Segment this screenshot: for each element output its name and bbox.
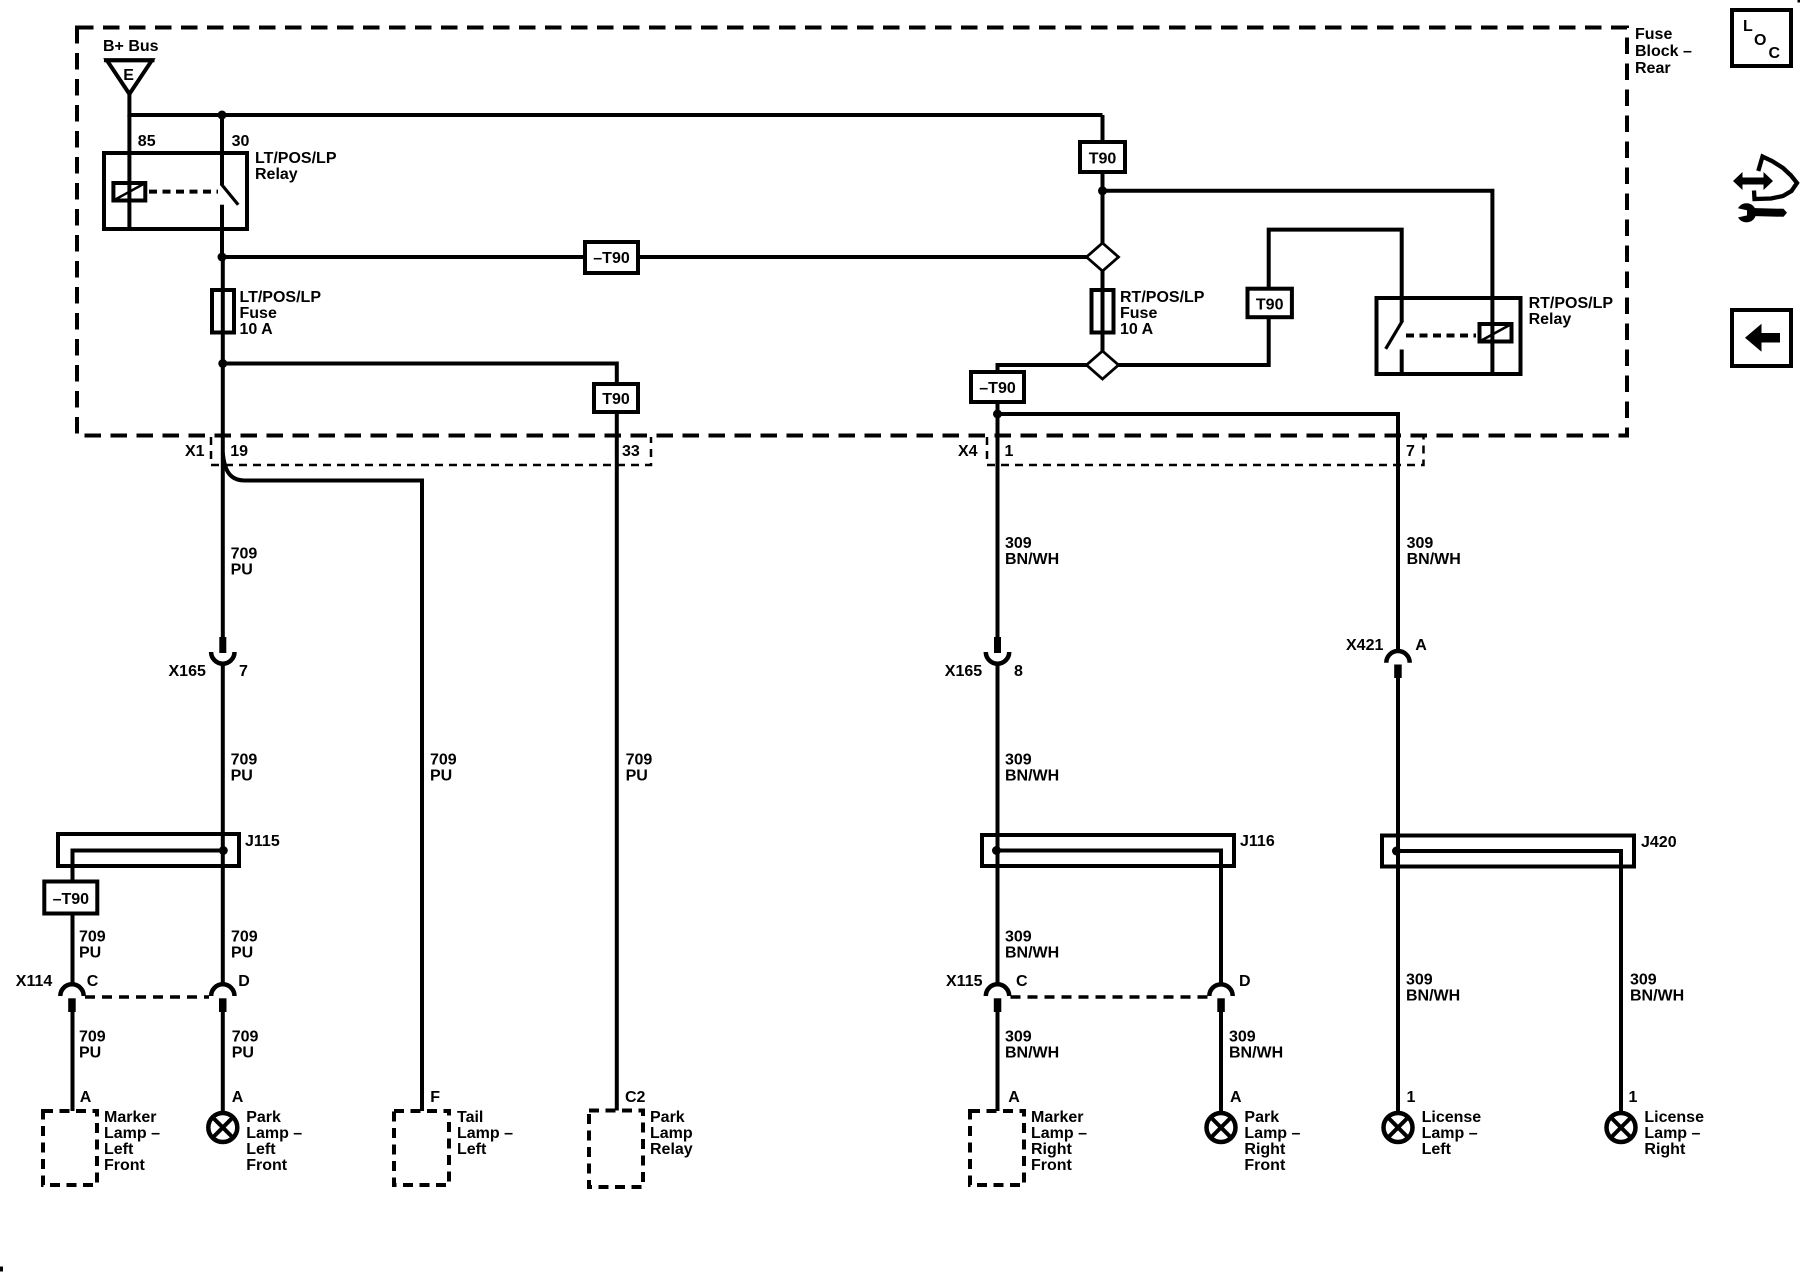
relay K-LT switch blade	[222, 185, 237, 257]
connector diamond 1	[1087, 243, 1119, 271]
svg-text:PU: PU	[231, 945, 253, 962]
svg-text:309: 309	[1630, 972, 1657, 989]
svg-text:85: 85	[138, 133, 156, 150]
svg-text:C2: C2	[625, 1089, 646, 1106]
svg-text:30: 30	[232, 133, 250, 150]
svg-text:F: F	[430, 1089, 440, 1106]
svg-text:RT/POS/LP: RT/POS/LP	[1120, 289, 1205, 306]
svg-text:–T90: –T90	[53, 891, 90, 908]
relay K-LT box	[104, 153, 247, 229]
svg-text:BN/WH: BN/WH	[1005, 1045, 1059, 1062]
svg-text:Right: Right	[1644, 1141, 1686, 1158]
svg-text:BN/WH: BN/WH	[1407, 551, 1461, 568]
wire label 309 BN/WH (to park right)	[1229, 1029, 1283, 1062]
svg-text:Lamp: Lamp	[650, 1125, 693, 1142]
svg-text:Lamp –: Lamp –	[1644, 1125, 1700, 1142]
svg-text:Right: Right	[1244, 1141, 1286, 1158]
svg-text:A: A	[232, 1089, 244, 1106]
svg-text:709: 709	[430, 752, 457, 769]
svg-text:Fuse: Fuse	[1120, 305, 1157, 322]
svg-text:709: 709	[232, 1029, 259, 1046]
inline connector X165 pin 7	[211, 637, 234, 664]
tag T90 (3)	[1080, 142, 1125, 172]
svg-text:1: 1	[1629, 1089, 1638, 1106]
svg-text:Rear: Rear	[1635, 60, 1671, 77]
inline connector X114 pin C	[60, 984, 83, 1012]
wire X115 C to marker lamp right	[996, 1012, 1000, 1111]
fuse block - rear dashed border	[77, 28, 1627, 436]
inline connector X421 pin A	[1386, 651, 1409, 678]
svg-text:PU: PU	[79, 945, 101, 962]
svg-text:Lamp –: Lamp –	[246, 1125, 302, 1142]
B+ bus power symbol triangle E	[104, 60, 155, 94]
wire label 709 PU (to marker lamp)	[79, 1029, 106, 1062]
svg-text:BN/WH: BN/WH	[1229, 1045, 1283, 1062]
wire T90 tag3 to diamond 1	[1101, 171, 1105, 243]
svg-text:Marker: Marker	[104, 1109, 156, 1126]
wire label 709 PU (below J115 main)	[231, 929, 258, 962]
svg-text:A: A	[80, 1089, 92, 1106]
X115 C-D dashed harness link	[1011, 995, 1208, 999]
wire label 709 PU (mid tail lamp)	[430, 752, 457, 785]
relay K-LT coil	[113, 183, 145, 201]
svg-text:D: D	[238, 973, 250, 990]
svg-text:309: 309	[1407, 535, 1434, 552]
svg-text:7: 7	[239, 663, 248, 680]
svg-text:–T90: –T90	[593, 250, 630, 267]
svg-text:Left: Left	[457, 1141, 487, 1158]
svg-text:A: A	[1230, 1089, 1242, 1106]
Tail Lamp Left label	[457, 1109, 513, 1158]
svg-text:Lamp –: Lamp –	[1422, 1125, 1478, 1142]
svg-text:BN/WH: BN/WH	[1406, 988, 1460, 1005]
svg-text:Front: Front	[104, 1157, 146, 1174]
LT/POS/LP Fuse 10 A label	[240, 289, 322, 338]
wire label 309 BN/WH (to marker right)	[1005, 1029, 1059, 1062]
svg-text:BN/WH: BN/WH	[1630, 988, 1684, 1005]
svg-text:T90: T90	[602, 391, 630, 408]
splice J420	[1382, 836, 1634, 1115]
svg-text:7: 7	[1406, 443, 1415, 460]
svg-text:Lamp –: Lamp –	[104, 1125, 160, 1142]
tag -T90 (6)	[44, 882, 97, 914]
svg-text:O: O	[1754, 32, 1766, 49]
inline connector X114 pin D	[211, 984, 234, 1012]
svg-text:10 A: 10 A	[240, 321, 274, 338]
wire T90 tag5 up over to RT relay switch	[1269, 230, 1402, 298]
wire label 709 PU (left of J115 below)	[79, 929, 106, 962]
License Lamp Left label	[1422, 1109, 1482, 1158]
svg-text:BN/WH: BN/WH	[1005, 768, 1059, 785]
svg-text:PU: PU	[232, 1045, 254, 1062]
marker lamp - left front dashed box	[43, 1111, 97, 1185]
license lamp - left lamp symbol	[1384, 1113, 1413, 1142]
bus wire horizontal	[129, 113, 1102, 117]
wire label 709 PU (mid park lamp relay)	[626, 752, 653, 785]
svg-text:X165: X165	[169, 663, 206, 680]
wire -T90 tag6 to X114 C	[71, 914, 75, 986]
Park Lamp Right Front label	[1244, 1109, 1300, 1174]
svg-text:BN/WH: BN/WH	[1005, 551, 1059, 568]
wire -T90 tag4 down to X4 pin 1	[996, 402, 1000, 637]
license lamp - right lamp symbol	[1607, 1113, 1636, 1142]
wire branch to tail lamp	[223, 453, 422, 1111]
svg-text:RT/POS/LP: RT/POS/LP	[1529, 295, 1614, 312]
svg-text:309: 309	[1005, 1029, 1032, 1046]
interconnect hand icon double arrow	[1733, 172, 1773, 190]
svg-text:L: L	[1743, 18, 1753, 35]
svg-text:–T90: –T90	[979, 380, 1016, 397]
svg-text:A: A	[1008, 1089, 1020, 1106]
tag T90 (2)	[594, 384, 638, 412]
relay K-LT dashed actuator link	[149, 190, 218, 194]
svg-text:1: 1	[1005, 443, 1014, 460]
node junction below LT relay	[218, 253, 227, 262]
wire X114 D to park lamp	[221, 1012, 225, 1115]
svg-text:Front: Front	[246, 1157, 288, 1174]
wire relay to -T90 tag	[222, 255, 586, 259]
relay K-RT coil	[1480, 298, 1512, 374]
wire label 309 BN/WH (mid right)	[1005, 752, 1059, 785]
svg-text:Relay: Relay	[650, 1141, 693, 1158]
svg-text:Front: Front	[1244, 1157, 1286, 1174]
svg-text:Right: Right	[1031, 1141, 1073, 1158]
wire label 709 PU (mid left)	[231, 752, 258, 785]
wire X421 to J420 and license lamp left	[1396, 678, 1400, 1115]
splice J116	[982, 835, 1234, 985]
wire label 309 BN/WH (X4 pin1 upper)	[1005, 535, 1059, 568]
svg-text:X165: X165	[945, 663, 982, 680]
svg-text:J420: J420	[1641, 834, 1677, 851]
svg-text:Relay: Relay	[255, 166, 298, 183]
connector X4 dotted outline	[987, 437, 1424, 465]
node junction below -T90 tag4	[993, 410, 1002, 419]
wire X165-7 to J115 and X114 D	[221, 664, 225, 985]
svg-text:Block –: Block –	[1635, 43, 1692, 60]
svg-text:A: A	[1415, 637, 1427, 654]
svg-text:X1: X1	[185, 443, 205, 460]
X114 C-D dashed harness link	[85, 995, 209, 999]
wire -T90 tag to diamond	[636, 255, 1087, 259]
svg-text:PU: PU	[79, 1045, 101, 1062]
svg-text:Lamp –: Lamp –	[1031, 1125, 1087, 1142]
svg-text:19: 19	[230, 443, 248, 460]
svg-text:309: 309	[1005, 929, 1032, 946]
svg-text:1: 1	[1407, 1089, 1416, 1106]
wire junction to T90 tag 2	[223, 364, 617, 385]
svg-text:Park: Park	[650, 1109, 685, 1126]
svg-text:X114: X114	[16, 973, 53, 990]
wire pin 85	[127, 115, 131, 229]
svg-text:PU: PU	[231, 562, 253, 579]
svg-text:309: 309	[1406, 972, 1433, 989]
wire label 309 BN/WH (license left)	[1406, 972, 1460, 1005]
Fuse Block - Rear label	[1635, 26, 1692, 77]
inline connector X115 pin D	[1209, 984, 1232, 1012]
svg-text:PU: PU	[430, 768, 452, 785]
svg-text:T90: T90	[1089, 151, 1117, 168]
LT/POS/LP Relay label	[255, 150, 337, 183]
park lamp - right front lamp symbol	[1207, 1113, 1236, 1142]
svg-text:Marker: Marker	[1031, 1109, 1083, 1126]
wire X114 C to marker lamp	[71, 1012, 75, 1111]
svg-text:Left: Left	[104, 1141, 134, 1158]
svg-text:8: 8	[1014, 663, 1023, 680]
relay K-RT switch blade	[1387, 298, 1402, 374]
node junction below T90 tag3	[1098, 186, 1107, 195]
svg-text:B+ Bus: B+ Bus	[103, 38, 159, 55]
svg-text:X115: X115	[946, 973, 983, 990]
marker lamp - right front dashed box	[970, 1111, 1024, 1185]
connector diamond 2	[1087, 351, 1119, 379]
svg-text:Left: Left	[246, 1141, 276, 1158]
svg-text:C: C	[87, 973, 99, 990]
page corner mark bottom-left	[0, 1267, 3, 1272]
fuse F-LT	[212, 290, 234, 333]
svg-text:709: 709	[79, 1029, 106, 1046]
svg-text:X4: X4	[958, 443, 978, 460]
License Lamp Right label	[1644, 1109, 1704, 1158]
Park Lamp Left Front label	[246, 1109, 302, 1174]
svg-text:Lamp –: Lamp –	[457, 1125, 513, 1142]
wire junction to X4 pin 7	[998, 414, 1399, 650]
svg-text:Left: Left	[1422, 1141, 1452, 1158]
wire diamond2 to -T90 tag 4	[998, 365, 1087, 372]
wire label 309 BN/WH (license right)	[1630, 972, 1684, 1005]
svg-text:33: 33	[622, 443, 640, 460]
svg-text:Relay: Relay	[1529, 311, 1572, 328]
wire diamond2 to T90 tag 5	[1119, 317, 1269, 365]
svg-text:C: C	[1016, 973, 1028, 990]
svg-text:Fuse: Fuse	[240, 305, 277, 322]
splice J115	[58, 834, 239, 881]
svg-text:Park: Park	[1244, 1109, 1279, 1126]
svg-text:309: 309	[1229, 1029, 1256, 1046]
wire junction to RT relay coil	[1103, 191, 1493, 298]
svg-text:BN/WH: BN/WH	[1005, 945, 1059, 962]
relay K-RT dashed actuator link	[1406, 334, 1476, 338]
svg-text:PU: PU	[626, 768, 648, 785]
svg-text:Lamp –: Lamp –	[1244, 1125, 1300, 1142]
wire through RT fuse	[1101, 271, 1105, 351]
wire pin 30	[220, 115, 224, 185]
wire X165-8 to J116 and X115 C	[996, 664, 1000, 985]
svg-text:D: D	[1239, 973, 1251, 990]
svg-text:C: C	[1769, 45, 1781, 62]
wire 709 PU from X1 pin 19 down	[221, 364, 225, 638]
wire label 709 PU (upper left)	[231, 546, 258, 579]
tag -T90 (4)	[971, 372, 1024, 402]
svg-text:709: 709	[626, 752, 653, 769]
svg-text:309: 309	[1005, 752, 1032, 769]
svg-text:Front: Front	[1031, 1157, 1073, 1174]
svg-text:709: 709	[79, 929, 106, 946]
node junction below LT fuse	[218, 359, 227, 368]
Marker Lamp Left Front label	[104, 1109, 160, 1174]
inline connector X165 pin 8	[986, 637, 1009, 664]
svg-text:LT/POS/LP: LT/POS/LP	[240, 289, 322, 306]
svg-text:Park: Park	[246, 1109, 281, 1126]
svg-text:License: License	[1644, 1109, 1704, 1126]
wire label 309 BN/WH (below J116)	[1005, 929, 1059, 962]
svg-text:709: 709	[231, 546, 258, 563]
wire X115 D to park lamp right	[1219, 1012, 1223, 1115]
Marker Lamp Right Front label	[1031, 1109, 1087, 1174]
interconnect hand icon outline	[1754, 157, 1797, 200]
fuse F-RT	[1092, 290, 1114, 333]
svg-text:Fuse: Fuse	[1635, 26, 1672, 43]
svg-text:J116: J116	[1240, 833, 1275, 850]
page corner mark top-right	[1798, 0, 1800, 3]
RT/POS/LP Relay label	[1529, 295, 1614, 328]
svg-text:LT/POS/LP: LT/POS/LP	[255, 150, 337, 167]
relay K-RT box	[1377, 298, 1521, 374]
wire label 709 PU (to park lamp)	[232, 1029, 259, 1062]
interconnect hand icon wrench	[1735, 203, 1788, 222]
svg-text:709: 709	[231, 752, 258, 769]
park lamp relay dashed box	[589, 1111, 643, 1188]
wire B+ triangle to bus	[127, 94, 131, 117]
svg-text:J115: J115	[245, 833, 280, 850]
wire 33 down to park lamp relay	[615, 412, 619, 1111]
tag -T90 (left)	[585, 242, 638, 273]
wire label 309 BN/WH (X4 pin7 upper)	[1407, 535, 1461, 568]
tag T90 (5)	[1248, 289, 1292, 318]
back arrow icon box	[1732, 310, 1791, 366]
svg-text:Tail: Tail	[457, 1109, 483, 1126]
LOC icon box	[1732, 10, 1791, 66]
svg-text:309: 309	[1005, 535, 1032, 552]
svg-text:T90: T90	[1256, 297, 1284, 314]
svg-text:E: E	[123, 67, 134, 84]
svg-text:709: 709	[231, 929, 258, 946]
svg-text:License: License	[1422, 1109, 1482, 1126]
svg-text:X421: X421	[1346, 637, 1383, 654]
Park Lamp Relay label	[650, 1109, 693, 1158]
inline connector X115 pin C	[986, 984, 1009, 1012]
tail lamp - left dashed box	[394, 1111, 449, 1185]
connector X1 dotted outline	[211, 437, 651, 465]
park lamp - left front lamp symbol	[208, 1113, 237, 1142]
wire bus corner down to T90 tag 3	[1101, 115, 1105, 143]
svg-text:PU: PU	[231, 768, 253, 785]
RT/POS/LP Fuse 10 A label	[1120, 289, 1205, 338]
node junction on bus	[218, 111, 227, 120]
svg-text:10 A: 10 A	[1120, 321, 1154, 338]
wire through LT fuse	[221, 257, 225, 364]
